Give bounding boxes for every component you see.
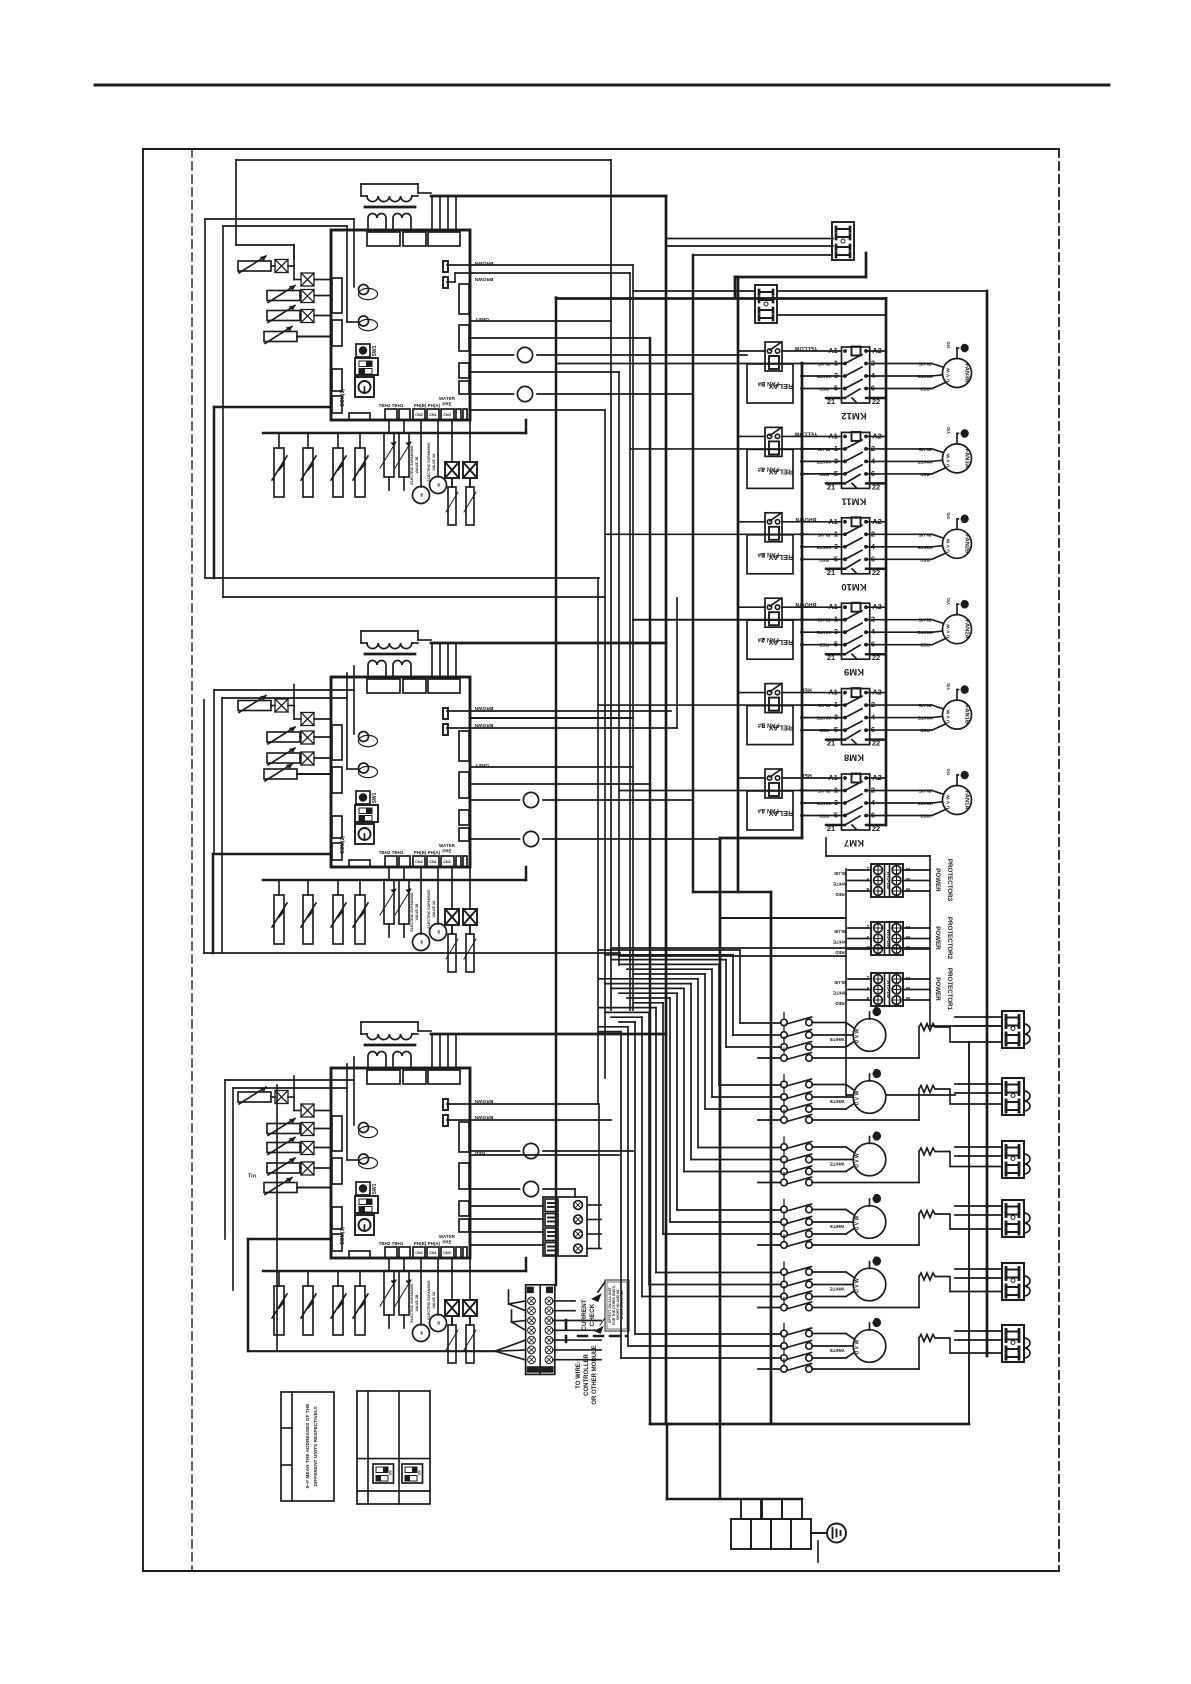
power protector1 block HYJ-1W: [871, 973, 903, 1006]
svg-text:BLUE: BLUE: [919, 789, 932, 794]
svg-text:BLUE: BLUE: [919, 362, 932, 367]
svg-text:PROTECTOR1: PROTECTOR1: [946, 968, 953, 1011]
svg-text:FAN1B: FAN1B: [964, 705, 970, 724]
svg-text:3: 3: [834, 798, 838, 807]
power protector2 block HYJ-1W: [871, 922, 903, 955]
board bottom connectors: [349, 1251, 370, 1258]
svg-text:WHITE: WHITE: [918, 545, 933, 550]
ground symbol: [827, 1524, 846, 1543]
sensor connector: [301, 1104, 314, 1117]
svg-text:6: 6: [871, 640, 875, 649]
terminal block XT4: [1002, 1200, 1024, 1237]
svg-text:KM9: KM9: [844, 666, 864, 677]
svg-text:CONTROLLER: CONTROLLER: [584, 1354, 590, 1396]
contactor KM9 main contact 5-6: [802, 644, 845, 646]
svg-text:21: 21: [827, 397, 835, 406]
svg-text:TBH2 TBH1: TBH2 TBH1: [379, 850, 404, 855]
svg-text:U V W: U V W: [855, 1029, 861, 1044]
svg-text:BROWN: BROWN: [474, 276, 493, 282]
wire 4-pole terminal row 2: [470, 1218, 543, 1220]
note box short-circuit: [605, 1280, 629, 1331]
svg-text:BLUE: BLUE: [834, 980, 846, 985]
svg-text:FAN1A: FAN1A: [964, 790, 970, 810]
output tab BROWN2: [443, 724, 448, 735]
svg-text:ELECTRIC EXPANSIVE: ELECTRIC EXPANSIVE: [427, 1280, 431, 1320]
svg-text:KM8: KM8: [844, 752, 864, 763]
svg-text:1: 1: [834, 700, 838, 709]
board right edge connectors: [459, 731, 469, 761]
svg-text:95: 95: [906, 935, 911, 940]
terminal block XT3: [1002, 1141, 1024, 1178]
svg-text:Y/G: Y/G: [946, 427, 951, 434]
rotary address switch: [355, 377, 374, 397]
svg-text:HYJ-1W: HYJ-1W: [886, 981, 891, 999]
contactor KM7 main contact 5-6: [802, 815, 845, 817]
pressure switch 2-1: [278, 880, 280, 895]
module3 lower-left heavy wire: [248, 1238, 331, 1241]
wire BROWN1 module2: [447, 710, 671, 712]
thermistor TBH1: [403, 420, 405, 433]
fan motor FAN2B: [943, 529, 972, 558]
svg-text:21: 21: [827, 739, 835, 748]
svg-text:2: 2: [871, 786, 875, 795]
svg-text:U V W: U V W: [946, 368, 952, 382]
board bottom connectors: [349, 860, 370, 867]
wire 4-pole terminal row 4: [470, 1244, 543, 1246]
compressor contact set 2: [781, 1081, 788, 1088]
compressor contact set 6: [781, 1330, 788, 1337]
fan relay control 3# A: [765, 427, 782, 456]
crankcase heater resistor 2: [919, 1086, 1002, 1121]
contactor KM11 main contact 5-6: [802, 473, 845, 475]
board bottom connectors: [349, 413, 370, 420]
contactor KM11 main contact 1-2: [802, 448, 845, 450]
fan relay control 1# A: [765, 769, 782, 798]
sensor connector: [301, 273, 314, 286]
svg-text:KM12: KM12: [841, 410, 866, 421]
svg-text:FAN3A: FAN3A: [964, 449, 970, 469]
svg-text:5: 5: [834, 640, 838, 649]
svg-text:3: 3: [834, 456, 838, 465]
pressure switch 2-3: [337, 880, 339, 895]
transformer feed wires module 1: [418, 192, 431, 194]
svg-text:1: 1: [834, 359, 838, 368]
board top connectors: [367, 232, 400, 246]
crankcase heater resistor 1: [919, 1024, 1002, 1059]
node circle B: [470, 393, 514, 395]
wire BROWN1 module1: [447, 264, 633, 266]
svg-text:BROWN: BROWN: [795, 601, 816, 607]
svg-text:PH(B) PH(A): PH(B) PH(A): [414, 850, 441, 855]
svg-text:U V W: U V W: [855, 1216, 861, 1231]
svg-text:YELLOW: YELLOW: [794, 345, 818, 351]
power protector right bus: [929, 856, 931, 1026]
wire RED module3: [470, 1154, 619, 1156]
svg-text:CN1: CN1: [429, 413, 437, 417]
svg-text:RED: RED: [818, 814, 828, 819]
board top connectors: [367, 1070, 400, 1084]
ground symbol of FAN2A: [956, 604, 958, 615]
node circle E: [470, 1150, 520, 1152]
contactor KM12 coil: [852, 347, 861, 356]
transformer feed wires module 3: [418, 1030, 431, 1032]
contactor KM11 aux contact 21-22: [826, 482, 845, 485]
power protector3 block HYJ-1W: [871, 864, 903, 897]
svg-text:S: S: [867, 935, 870, 940]
svg-text:RED: RED: [818, 557, 828, 562]
power protector3 lead 1: [848, 880, 871, 882]
svg-text:5: 5: [834, 811, 838, 820]
module1 lower-left heavy wire: [214, 406, 331, 409]
svg-text:R: R: [866, 996, 869, 1001]
transformer: [361, 183, 418, 185]
bus wire v666: [665, 196, 668, 1424]
svg-text:BLUE: BLUE: [919, 447, 932, 452]
relay label box 3# FAN RELAY: [747, 449, 793, 488]
pressure switch 3-2: [307, 1271, 309, 1286]
compressor motor M4: [853, 1206, 886, 1239]
power protector1 lead 0: [848, 978, 871, 980]
svg-text:COM(1): COM(1): [340, 389, 346, 407]
pressure switch 3-3: [337, 1271, 339, 1286]
svg-text:Y/G: Y/G: [946, 598, 951, 605]
electric expansive valve B: [420, 420, 422, 487]
svg-text:A1: A1: [828, 517, 838, 526]
compressor motor M2: [853, 1081, 886, 1114]
rotary address switch: [355, 1215, 374, 1235]
temperature sensor row y=705.5: [238, 701, 271, 711]
svg-text:1: 1: [834, 786, 838, 795]
bus wire v619: [618, 372, 620, 965]
svg-text:WHITE: WHITE: [830, 1348, 845, 1353]
ground symbol of motor M6: [869, 1323, 871, 1330]
svg-text:VALVE 3A: VALVE 3A: [432, 453, 436, 470]
svg-text:GREY: GREY: [474, 316, 488, 322]
svg-text:6: 6: [871, 811, 875, 820]
contactor KM9 aux contact 21-22: [826, 653, 845, 656]
wire relay to contactor coil: [738, 435, 765, 437]
svg-text:RELAY: RELAY: [769, 638, 794, 647]
bus wire v677: [676, 598, 678, 728]
svg-text:WHITE: WHITE: [833, 882, 847, 887]
svg-text:CN2: CN2: [415, 413, 423, 417]
svg-text:VALVE 3A: VALVE 3A: [432, 900, 436, 917]
svg-text:BLUE: BLUE: [834, 871, 846, 876]
svg-text:6: 6: [871, 725, 875, 734]
svg-text:PROTECTOR3: PROTECTOR3: [946, 859, 953, 902]
ground symbol of FAN3A: [956, 433, 958, 444]
contactor KM11 main contact 3-4: [802, 460, 845, 462]
svg-text:2: 2: [871, 529, 875, 538]
svg-text:RED: RED: [818, 472, 828, 477]
svg-text:21: 21: [827, 568, 835, 577]
compressor aux contact 1: [781, 1055, 788, 1062]
svg-text:ELECTRIC EXPANSIVE: ELECTRIC EXPANSIVE: [427, 889, 431, 929]
svg-text:RELAY: RELAY: [769, 467, 794, 476]
valve coil switches: [451, 1316, 453, 1325]
temperature sensor row y=315.5: [267, 311, 300, 321]
svg-text:A2: A2: [872, 431, 882, 440]
svg-text:U V W: U V W: [946, 709, 952, 723]
svg-text:A1: A1: [828, 773, 838, 782]
wire module2 to bus: [470, 717, 633, 719]
ground symbol of motor M5: [869, 1262, 871, 1269]
svg-text:U V W: U V W: [946, 538, 952, 552]
contactor KM9 coil: [852, 603, 861, 612]
wire GREY module2: [470, 766, 633, 768]
DIP switch: [355, 805, 378, 822]
contactor KM12 main contact 5-6: [802, 388, 845, 390]
svg-text:RED: RED: [835, 1001, 844, 1006]
svg-text:22: 22: [872, 482, 880, 491]
svg-text:ON: ON: [418, 1470, 422, 1475]
svg-text:WATER: WATER: [439, 1234, 456, 1239]
svg-text:VALVE 3A: VALVE 3A: [432, 1291, 436, 1308]
pressure switch 2-2: [307, 880, 309, 895]
wire 4-pole terminal row 1: [470, 1205, 543, 1207]
control board COM3 outline: [331, 1068, 470, 1258]
svg-text:RED: RED: [835, 892, 844, 897]
wire relay to contactor coil: [738, 777, 765, 779]
control board COM2 outline: [331, 677, 470, 867]
contactor KM12 main contact 1-2: [802, 363, 845, 365]
svg-text:BLUE: BLUE: [818, 618, 831, 623]
compressor aux contact 4: [781, 1242, 788, 1249]
relay coil symbol 2: [359, 319, 378, 330]
electric expansive valve A: [437, 1258, 439, 1315]
fan relay control 2# B: [765, 513, 782, 542]
contactor KM7 frame: [842, 774, 870, 830]
svg-text:GREY: GREY: [474, 762, 488, 768]
relay label box 2# FAN RELAY: [747, 620, 793, 659]
contactor KM9 main contact 3-4: [802, 631, 845, 633]
pressure switch 3-1: [278, 1271, 280, 1286]
svg-text:BLUE: BLUE: [818, 789, 831, 794]
svg-text:ON: ON: [389, 1470, 393, 1475]
svg-text:PH(B) PH(A): PH(B) PH(A): [414, 403, 441, 408]
svg-text:2: 2: [871, 359, 875, 368]
svg-text:22: 22: [872, 397, 880, 406]
svg-text:U V W: U V W: [855, 1091, 861, 1106]
electric expansive valve B: [420, 867, 422, 934]
4-way valve connector pair: [451, 867, 453, 909]
svg-text:3: 3: [834, 542, 838, 551]
module2 lower-left heavy wire: [213, 853, 331, 856]
svg-text:RED: RED: [919, 557, 929, 562]
ground wire: [811, 1532, 827, 1534]
compressor motor M5: [853, 1268, 886, 1301]
control board COM1 outline: [331, 230, 470, 420]
relay coil symbol 2: [359, 1157, 378, 1168]
svg-text:U V W: U V W: [855, 1278, 861, 1293]
bus wire v633: [632, 265, 634, 1010]
board right edge connectors: [459, 1122, 469, 1152]
wire BROWN2 module1: [447, 281, 455, 283]
bus wire v720: [719, 838, 722, 1424]
ground symbol of FAN2B: [956, 519, 958, 530]
svg-text:6: 6: [871, 384, 875, 393]
electric expansive valve A: [437, 420, 439, 477]
svg-text:TBH2 TBH1: TBH2 TBH1: [379, 1241, 404, 1246]
fan motor FAN2A: [943, 615, 972, 644]
valve coil switches: [451, 478, 453, 487]
svg-text:BLUE: BLUE: [834, 929, 846, 934]
contactor KM11 frame: [842, 432, 870, 488]
svg-text:PROTECTOR2: PROTECTOR2: [946, 917, 953, 960]
relay label box 2# FAN RELAY: [747, 535, 793, 574]
bus wire v802: [801, 364, 804, 839]
svg-text:RED: RED: [919, 814, 929, 819]
svg-text:A1: A1: [828, 346, 838, 355]
svg-text:BROWN: BROWN: [474, 1098, 493, 1104]
contactor KM8 main contact 5-6: [802, 729, 845, 731]
power protector1 lead 2: [848, 999, 871, 1001]
svg-text:R: R: [866, 887, 869, 892]
outer enclosure border (solid top/left/bottom, dashed right): [143, 148, 1059, 150]
wire BROWN2 module3: [447, 1119, 611, 1121]
thermistor TBH2: [388, 867, 390, 880]
svg-text:WHITE: WHITE: [918, 459, 933, 464]
thermistor TBH2: [388, 1258, 390, 1271]
bus wire v693: [692, 255, 695, 892]
address switch box: [357, 1391, 430, 1504]
compressor aux contact 2: [781, 1117, 788, 1124]
contactor KM7 main contact 3-4: [802, 802, 845, 804]
svg-text:5: 5: [834, 384, 838, 393]
crankcase heater resistor 4: [919, 1211, 1002, 1246]
contactor KM12 main contact 3-4: [802, 375, 845, 377]
thick feed to low-pressure switches: [525, 867, 528, 880]
svg-text:98: 98: [906, 976, 911, 981]
svg-text:22: 22: [872, 568, 880, 577]
contactor KM7 coil: [852, 774, 861, 783]
heavy field wire: [248, 1350, 495, 1352]
wire 4-pole terminal row 3: [470, 1231, 543, 1233]
wires into terminal strip: [509, 1301, 526, 1304]
svg-text:5: 5: [834, 469, 838, 478]
temperature sensor row y=1147.5: [267, 1143, 300, 1153]
thick feed to low-pressure switches: [525, 420, 528, 433]
svg-text:WHITE: WHITE: [830, 1162, 845, 1167]
svg-text:RED: RED: [919, 387, 929, 392]
contactor KM8 main contact 1-2: [802, 704, 845, 706]
svg-text:96: 96: [906, 996, 911, 1001]
push button SW1: [356, 1182, 370, 1195]
svg-text:2: 2: [871, 700, 875, 709]
svg-text:BROWN: BROWN: [795, 516, 816, 522]
top rule line: [95, 84, 1109, 87]
svg-text:U V W: U V W: [946, 624, 952, 638]
contactor KM10 coil: [852, 517, 861, 526]
terminal block XT5 feed wires: [955, 1268, 1002, 1270]
svg-text:22: 22: [872, 824, 880, 833]
terminal block XT6 feed wires: [955, 1330, 1002, 1332]
svg-text:21: 21: [827, 824, 835, 833]
svg-text:RELAY: RELAY: [769, 724, 794, 733]
temperature sensor row y=1168: [267, 1163, 300, 1173]
svg-text:FAN2A: FAN2A: [964, 620, 970, 640]
svg-text:TBH2 TBH1: TBH2 TBH1: [379, 403, 404, 408]
fan relay control 1# B: [765, 684, 782, 713]
valve coil switches: [451, 925, 453, 934]
svg-text:TO WIRE-: TO WIRE-: [576, 1361, 582, 1389]
svg-text:S: S: [867, 877, 870, 882]
compressor feed wires 6: [619, 1021, 635, 1023]
svg-text:WHITE: WHITE: [817, 801, 832, 806]
node circle C: [470, 799, 520, 801]
svg-text:PRE: PRE: [442, 402, 451, 407]
temperature sensor row y=774: [264, 769, 297, 779]
svg-text:A1: A1: [828, 431, 838, 440]
wire module1 aux2: [470, 409, 605, 411]
power inlet wires: [666, 1424, 669, 1499]
svg-text:WHITE: WHITE: [918, 630, 933, 635]
fan motor FAN3A: [943, 444, 972, 473]
crankcase heater resistor 3: [919, 1148, 1002, 1183]
svg-text:PRE: PRE: [442, 1240, 451, 1245]
wire relay to contactor coil: [738, 606, 765, 608]
bus wire v599: [598, 1104, 600, 1247]
svg-text:SW1: SW1: [372, 345, 378, 356]
compressor motor M3: [853, 1143, 886, 1176]
svg-text:Y/G: Y/G: [946, 768, 951, 775]
compressor feed wires 2: [619, 963, 719, 965]
output tab BROWN2: [443, 277, 448, 288]
relay label box 1# FAN RELAY: [747, 791, 793, 830]
output tab BROWN2: [443, 1115, 448, 1126]
EMI filter block 2: [755, 285, 777, 323]
svg-text:WHITE: WHITE: [918, 801, 933, 806]
svg-text:KM7: KM7: [844, 837, 864, 848]
wire module1 to bus: [470, 337, 650, 339]
relay label box 3# FAN RELAY: [747, 364, 793, 403]
bus wire v650: [649, 338, 652, 1424]
svg-text:Y/G: Y/G: [946, 512, 951, 519]
wire module1 aux1: [470, 371, 619, 373]
svg-text:HYJ-1W: HYJ-1W: [886, 872, 891, 890]
svg-text:RELAY: RELAY: [769, 382, 794, 391]
wire relay to contactor coil: [738, 350, 765, 352]
fan motor FAN1A: [943, 786, 972, 815]
relay coil symbol 1: [359, 1126, 378, 1137]
pressure switch 1-3: [337, 433, 339, 448]
fan relay control 2# A: [765, 598, 782, 627]
bus wire v738: [737, 277, 740, 892]
output tab BROWN1: [443, 708, 448, 719]
output tab BROWN1: [443, 261, 448, 272]
power terminal block: [741, 1499, 761, 1519]
ground symbol of motor M4: [869, 1199, 871, 1206]
svg-text:HYJ-1W: HYJ-1W: [886, 930, 891, 948]
svg-text:6: 6: [871, 554, 875, 563]
svg-text:BROWN: BROWN: [474, 1114, 493, 1120]
svg-text:WHITE: WHITE: [918, 374, 933, 379]
contact feed long wires: [556, 363, 845, 365]
compressor motor M6: [853, 1330, 886, 1363]
contactor KM10 main contact 1-2: [802, 533, 845, 535]
svg-text:ELECTRIC EXPANSIVE: ELECTRIC EXPANSIVE: [410, 892, 414, 932]
svg-text:CN1: CN1: [429, 860, 437, 864]
board left edge connectors: [332, 278, 342, 313]
svg-text:BLUE: BLUE: [919, 618, 932, 623]
svg-text:A2: A2: [872, 517, 882, 526]
svg-text:RED: RED: [835, 950, 844, 955]
svg-text:1: 1: [834, 615, 838, 624]
electric expansive valve B: [420, 1258, 422, 1325]
compressor aux contact 3: [781, 1179, 788, 1186]
compressor feed wires 3: [599, 978, 698, 980]
DIP switch: [355, 358, 378, 375]
